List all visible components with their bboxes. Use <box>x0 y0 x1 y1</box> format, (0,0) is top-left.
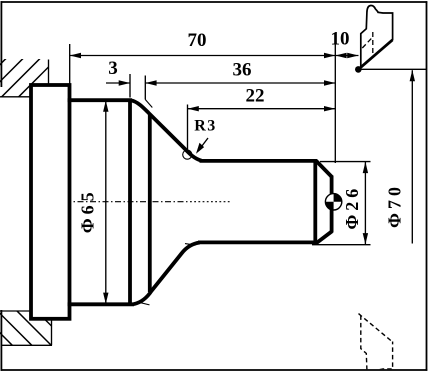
workpiece origin quadrant symbol <box>325 194 341 210</box>
extension line for dim 3 <box>129 74 131 98</box>
border frame left lower segment <box>0 310 2 371</box>
Phi65 dimension line <box>105 101 107 304</box>
extension line right shared (dims 70/36/22/10) <box>334 43 336 164</box>
Phi70 arrow <box>410 70 415 81</box>
taper profile bottom curve <box>134 243 200 305</box>
svg-text:R3: R3 <box>194 118 217 135</box>
svg-text:36: 36 <box>233 60 252 81</box>
tool path line <box>358 68 426 70</box>
Phi65 top arrow <box>103 101 108 112</box>
chuck bottom jaw hatching <box>0 310 91 346</box>
border frame right <box>426 1 428 371</box>
cutting tool edge slant <box>358 40 392 70</box>
dim 70 right arrow <box>324 53 335 58</box>
centerline left dotted lead <box>37 201 65 203</box>
chuck top jaw bottom face line <box>0 96 32 98</box>
Phi26 top extension line <box>320 161 371 163</box>
Phi26 cylinder top edge <box>200 159 318 163</box>
svg-text:Φ70: Φ70 <box>385 183 405 228</box>
Phi26 top arrow <box>363 162 368 173</box>
Phi70 dimension line <box>411 70 413 243</box>
dim 22 left arrow <box>188 106 199 111</box>
tangent tick at bottom taper corner <box>139 302 150 305</box>
Phi26 bottom extension line <box>312 244 371 246</box>
dim 36 right arrow <box>324 80 335 85</box>
Phi26 dimension line <box>364 162 366 245</box>
tool tip dot <box>355 66 362 73</box>
chuck bottom jaw right face line <box>51 320 53 345</box>
dimension 10 arrows <box>335 53 346 58</box>
dim 36 left arrow <box>145 80 156 85</box>
svg-text:Φ65: Φ65 <box>78 188 98 233</box>
end chamfer bottom <box>317 231 332 243</box>
centerline dash-dot main <box>65 201 190 203</box>
border frame top <box>1 1 428 3</box>
cutting tool hidden line vertical <box>372 32 374 53</box>
Phi65 bottom arrow <box>103 293 108 304</box>
chuck bottom jaw bottom face line <box>2 344 52 346</box>
end full-diameter line <box>313 160 317 245</box>
svg-text:Φ26: Φ26 <box>342 185 362 230</box>
ghost tool edge slant (dashed) <box>359 314 393 342</box>
R3 fillet circle <box>183 150 192 159</box>
dimension 22 line <box>188 108 336 110</box>
cutting tool hidden line diagonal <box>362 38 372 48</box>
taper profile top curve <box>131 100 202 160</box>
dim 70 left arrow <box>70 53 81 58</box>
stock bar Phi70 gripped section <box>31 85 70 319</box>
shoulder line at groove left <box>128 100 132 306</box>
extension line for dim 22 <box>187 105 189 153</box>
dim 22 right arrow <box>324 106 335 111</box>
Phi65 cylinder top edge <box>68 98 132 102</box>
R3 leader arrow <box>196 143 204 154</box>
centerline right dotted tail <box>190 201 232 203</box>
Phi26 cylinder bottom edge <box>198 240 318 244</box>
dim 3 arrow <box>119 80 130 85</box>
dimension 70 line <box>70 55 336 57</box>
border frame left upper segment <box>0 1 2 87</box>
chuck top jaw hatching <box>0 58 75 99</box>
chuck bottom jaw top face line <box>0 310 32 312</box>
border frame bottom <box>1 369 428 371</box>
dimension 3 tail line <box>106 82 130 84</box>
tangent tick at Phi26 bottom fillet <box>185 244 196 246</box>
chuck top jaw right face line <box>48 60 50 86</box>
ghost tool outline (dashed) <box>359 314 393 375</box>
svg-text:70: 70 <box>188 30 207 51</box>
Phi65 cylinder bottom edge <box>68 302 134 306</box>
end chamfer top <box>316 161 332 178</box>
extension line left of dim 70 <box>69 44 71 84</box>
cutting tool outline <box>361 5 393 68</box>
tangent tick at top corner <box>145 100 152 108</box>
R3 leader line <box>199 138 209 151</box>
svg-text:10: 10 <box>331 29 350 50</box>
svg-text:3: 3 <box>108 58 118 79</box>
shoulder line at taper start <box>148 114 152 293</box>
end face line <box>330 176 334 233</box>
Phi26 bottom arrow <box>363 233 368 244</box>
svg-text:22: 22 <box>246 86 265 107</box>
dimension 36 line <box>145 82 335 84</box>
extension line for dim 36 <box>144 76 146 100</box>
